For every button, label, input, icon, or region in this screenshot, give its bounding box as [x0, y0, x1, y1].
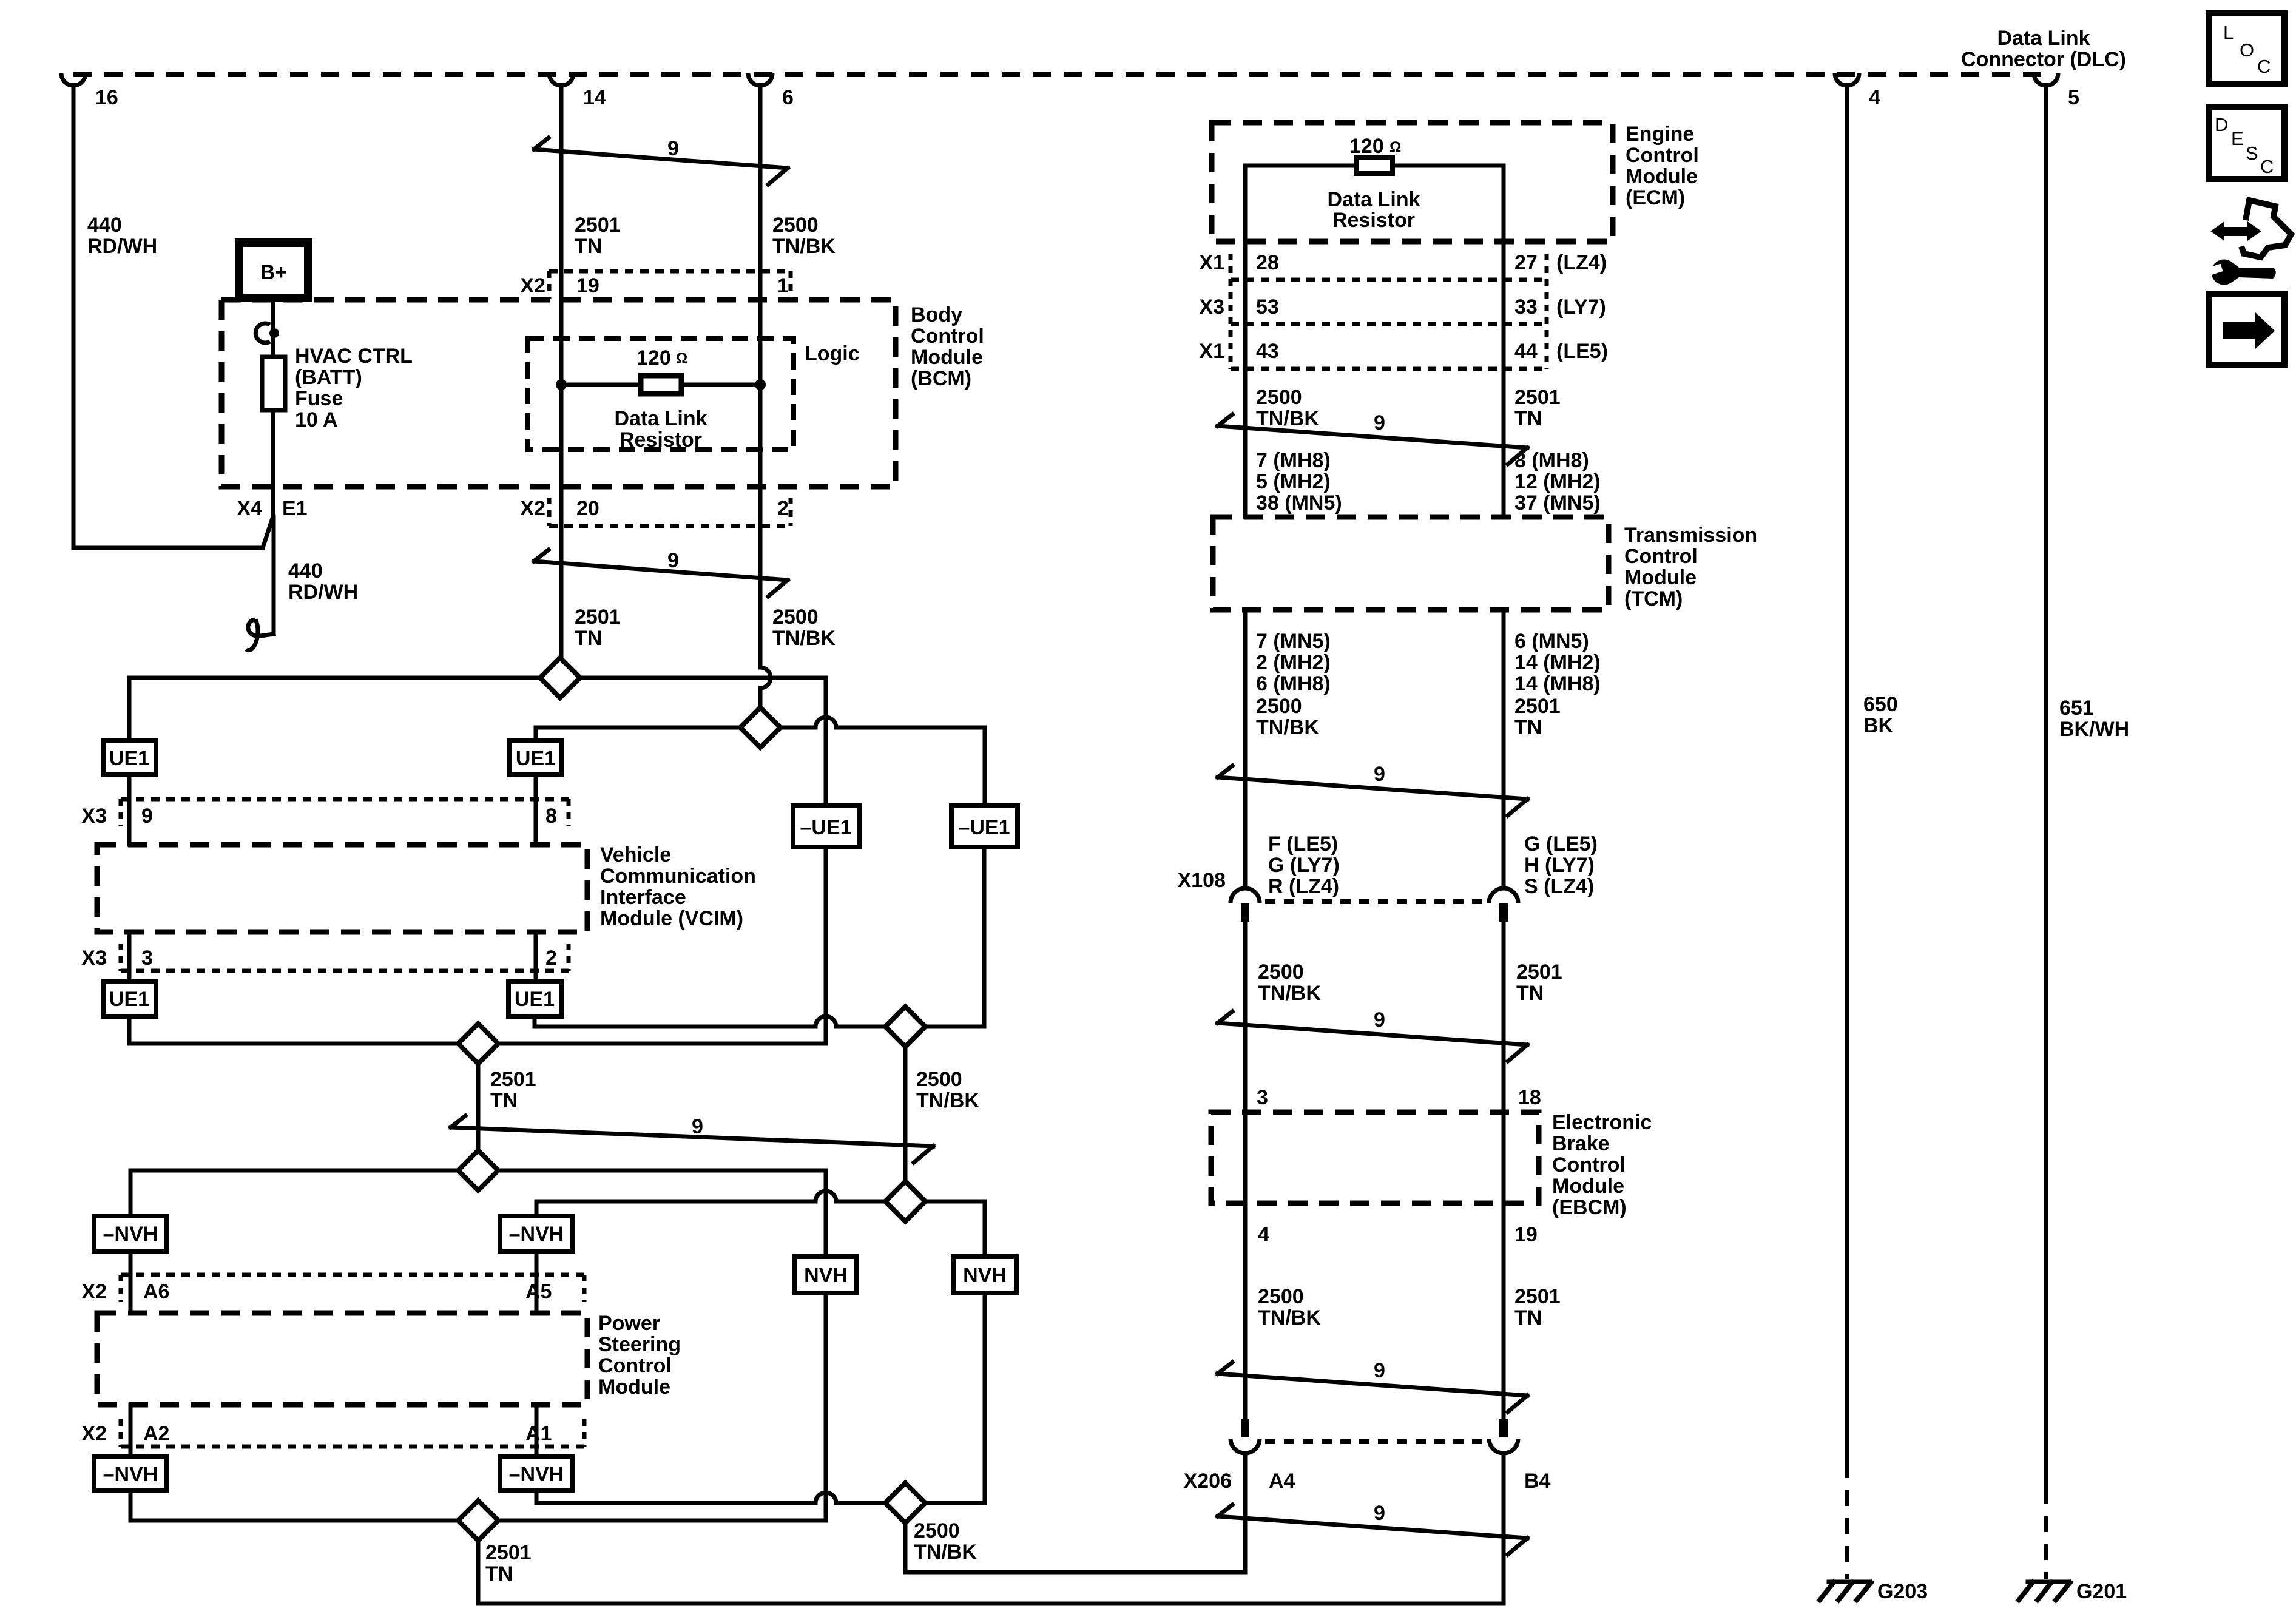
- svg-text:28: 28: [1256, 251, 1279, 274]
- svg-text:TN/BK: TN/BK: [914, 1541, 977, 1564]
- svg-text:9: 9: [1374, 763, 1385, 786]
- svg-text:Ω: Ω: [676, 350, 687, 366]
- svg-text:E: E: [2231, 128, 2244, 149]
- svg-text:Module: Module: [1624, 566, 1697, 589]
- svg-text:–NVH: –NVH: [509, 1223, 564, 1246]
- svg-text:Resistor: Resistor: [620, 428, 702, 451]
- svg-text:B+: B+: [260, 261, 287, 284]
- svg-text:L: L: [2223, 22, 2234, 43]
- svg-text:TN/BK: TN/BK: [1258, 982, 1321, 1005]
- svg-text:(EBCM): (EBCM): [1552, 1196, 1627, 1219]
- svg-text:2500: 2500: [1258, 960, 1304, 984]
- svg-text:120: 120: [1349, 135, 1384, 158]
- svg-text:Module: Module: [911, 346, 983, 369]
- svg-text:X4: X4: [237, 497, 262, 520]
- svg-text:A2: A2: [143, 1422, 169, 1445]
- svg-text:10 A: 10 A: [295, 408, 338, 431]
- svg-text:2500: 2500: [1256, 695, 1302, 718]
- svg-text:Body: Body: [911, 303, 962, 326]
- svg-text:2501: 2501: [575, 606, 621, 629]
- svg-text:7 (MN5): 7 (MN5): [1256, 630, 1331, 653]
- svg-text:3: 3: [141, 947, 153, 970]
- svg-text:Vehicle: Vehicle: [600, 843, 671, 866]
- svg-text:TN: TN: [575, 235, 602, 258]
- svg-text:9: 9: [692, 1115, 703, 1138]
- svg-text:14 (MH2): 14 (MH2): [1514, 651, 1601, 674]
- svg-text:TN/BK: TN/BK: [1256, 407, 1319, 430]
- svg-text:TN/BK: TN/BK: [772, 627, 836, 650]
- svg-text:4: 4: [1869, 86, 1880, 109]
- svg-text:37 (MN5): 37 (MN5): [1514, 491, 1601, 515]
- svg-text:UE1: UE1: [515, 988, 555, 1011]
- svg-text:X1: X1: [1199, 251, 1224, 274]
- svg-text:2501: 2501: [485, 1541, 532, 1564]
- svg-text:2500: 2500: [1256, 386, 1302, 409]
- svg-text:(LY7): (LY7): [1556, 295, 1606, 319]
- svg-text:12 (MH2): 12 (MH2): [1514, 470, 1601, 493]
- svg-text:–NVH: –NVH: [103, 1223, 158, 1246]
- svg-text:(TCM): (TCM): [1624, 587, 1683, 610]
- svg-text:2500: 2500: [916, 1068, 962, 1091]
- svg-text:2500: 2500: [772, 214, 819, 237]
- svg-text:2501: 2501: [1514, 386, 1561, 409]
- svg-text:UE1: UE1: [516, 747, 556, 770]
- svg-text:5 (MH2): 5 (MH2): [1256, 470, 1331, 493]
- svg-text:E1: E1: [282, 497, 308, 520]
- svg-text:2 (MH2): 2 (MH2): [1256, 651, 1331, 674]
- svg-text:F (LE5): F (LE5): [1268, 832, 1338, 856]
- svg-text:TN: TN: [485, 1562, 513, 1585]
- svg-text:9: 9: [1374, 1359, 1385, 1382]
- svg-text:Steering: Steering: [598, 1333, 681, 1356]
- svg-text:Interface: Interface: [600, 886, 686, 909]
- svg-text:6 (MN5): 6 (MN5): [1514, 630, 1589, 653]
- svg-text:X2: X2: [81, 1280, 107, 1303]
- svg-text:2501: 2501: [1516, 960, 1562, 984]
- svg-text:19: 19: [576, 274, 599, 297]
- svg-text:X108: X108: [1178, 869, 1226, 892]
- svg-text:18: 18: [1518, 1086, 1541, 1109]
- svg-text:X206: X206: [1184, 1470, 1232, 1493]
- svg-text:X3: X3: [81, 805, 107, 828]
- svg-text:Module: Module: [1552, 1175, 1624, 1198]
- svg-text:Connector (DLC): Connector (DLC): [1961, 48, 2126, 71]
- svg-text:TN: TN: [490, 1089, 518, 1112]
- svg-text:Communication: Communication: [600, 865, 756, 888]
- svg-text:HVAC CTRL: HVAC CTRL: [295, 345, 413, 368]
- svg-text:2501: 2501: [575, 214, 621, 237]
- svg-text:53: 53: [1256, 295, 1279, 319]
- svg-text:2501: 2501: [1514, 1285, 1561, 1308]
- svg-text:X3: X3: [81, 947, 107, 970]
- svg-text:5: 5: [2068, 86, 2079, 109]
- svg-text:33: 33: [1514, 295, 1538, 319]
- svg-text:38 (MN5): 38 (MN5): [1256, 491, 1342, 515]
- svg-text:–UE1: –UE1: [958, 816, 1010, 839]
- svg-text:BK: BK: [1863, 714, 1894, 737]
- svg-text:2500: 2500: [1258, 1285, 1304, 1308]
- svg-text:120: 120: [636, 346, 671, 370]
- svg-text:4: 4: [1258, 1223, 1269, 1246]
- svg-text:44: 44: [1514, 340, 1538, 363]
- svg-text:C: C: [2260, 156, 2274, 177]
- svg-text:NVH: NVH: [804, 1264, 848, 1287]
- svg-text:UE1: UE1: [109, 988, 149, 1011]
- svg-text:Brake: Brake: [1552, 1132, 1610, 1155]
- svg-text:Ω: Ω: [1389, 139, 1401, 155]
- svg-text:X3: X3: [1199, 295, 1224, 319]
- svg-text:7 (MH8): 7 (MH8): [1256, 449, 1331, 472]
- svg-text:9: 9: [1374, 1008, 1385, 1031]
- svg-text:O: O: [2240, 39, 2254, 61]
- svg-text:651: 651: [2059, 697, 2094, 720]
- svg-text:Data Link: Data Link: [1327, 188, 1420, 211]
- svg-text:2: 2: [545, 947, 557, 970]
- svg-text:RD/WH: RD/WH: [288, 581, 358, 604]
- svg-text:TN/BK: TN/BK: [772, 235, 836, 258]
- svg-text:9: 9: [667, 549, 679, 572]
- svg-text:Control: Control: [1552, 1153, 1626, 1176]
- svg-text:20: 20: [576, 497, 599, 520]
- svg-text:UE1: UE1: [109, 747, 149, 770]
- svg-text:650: 650: [1863, 693, 1898, 716]
- svg-text:Control: Control: [1626, 144, 1699, 167]
- svg-text:H (LY7): H (LY7): [1524, 854, 1595, 877]
- svg-text:X2: X2: [520, 497, 545, 520]
- svg-text:(BATT): (BATT): [295, 366, 362, 389]
- svg-text:16: 16: [95, 86, 118, 109]
- svg-text:A6: A6: [143, 1280, 169, 1303]
- svg-text:(LZ4): (LZ4): [1556, 251, 1607, 274]
- svg-text:9: 9: [1374, 1502, 1385, 1525]
- svg-text:9: 9: [141, 805, 153, 828]
- svg-text:3: 3: [1257, 1086, 1268, 1109]
- svg-text:TN/BK: TN/BK: [1258, 1306, 1321, 1329]
- svg-text:27: 27: [1514, 251, 1538, 274]
- svg-text:Data Link: Data Link: [614, 407, 707, 430]
- svg-text:BK/WH: BK/WH: [2059, 718, 2129, 741]
- svg-text:A5: A5: [525, 1280, 552, 1303]
- svg-text:NVH: NVH: [963, 1264, 1007, 1287]
- svg-text:8: 8: [545, 805, 557, 828]
- svg-text:C: C: [2257, 56, 2271, 77]
- svg-text:X1: X1: [1199, 340, 1224, 363]
- svg-text:Data Link: Data Link: [1997, 27, 2090, 50]
- svg-text:TN/BK: TN/BK: [916, 1089, 979, 1112]
- svg-text:X2: X2: [520, 274, 545, 297]
- svg-text:TN: TN: [1514, 407, 1542, 430]
- svg-text:Electronic: Electronic: [1552, 1111, 1652, 1134]
- svg-text:Resistor: Resistor: [1332, 209, 1415, 232]
- svg-text:G201: G201: [2076, 1580, 2127, 1603]
- svg-text:S (LZ4): S (LZ4): [1524, 875, 1594, 898]
- svg-text:(ECM): (ECM): [1626, 186, 1685, 209]
- svg-text:G (LY7): G (LY7): [1268, 854, 1340, 877]
- svg-text:Power: Power: [598, 1312, 660, 1335]
- svg-text:TN: TN: [1514, 1306, 1542, 1329]
- svg-text:1: 1: [777, 274, 789, 297]
- svg-text:G203: G203: [1877, 1580, 1928, 1603]
- svg-text:2501: 2501: [490, 1068, 536, 1091]
- svg-text:TN: TN: [1516, 982, 1544, 1005]
- svg-text:(LE5): (LE5): [1556, 340, 1608, 363]
- svg-text:43: 43: [1256, 340, 1279, 363]
- svg-text:Module: Module: [1626, 165, 1698, 188]
- svg-text:TN: TN: [575, 627, 602, 650]
- svg-text:RD/WH: RD/WH: [87, 235, 157, 258]
- svg-text:2: 2: [777, 497, 789, 520]
- svg-text:TN/BK: TN/BK: [1256, 716, 1319, 739]
- svg-text:Transmission: Transmission: [1624, 524, 1757, 547]
- svg-text:X2: X2: [81, 1422, 107, 1445]
- svg-text:Module (VCIM): Module (VCIM): [600, 907, 743, 930]
- svg-text:Control: Control: [598, 1354, 672, 1377]
- svg-text:Module: Module: [598, 1376, 670, 1399]
- svg-text:Control: Control: [1624, 545, 1698, 568]
- svg-text:9: 9: [667, 137, 679, 160]
- svg-text:G (LE5): G (LE5): [1524, 832, 1598, 856]
- svg-text:14 (MH8): 14 (MH8): [1514, 672, 1601, 695]
- svg-text:B4: B4: [1524, 1470, 1551, 1493]
- svg-text:A4: A4: [1269, 1470, 1295, 1493]
- svg-text:2500: 2500: [914, 1519, 960, 1542]
- svg-text:Logic: Logic: [805, 342, 860, 365]
- svg-text:6: 6: [782, 86, 794, 109]
- svg-text:440: 440: [288, 559, 323, 582]
- svg-text:TN: TN: [1514, 716, 1542, 739]
- svg-text:14: 14: [583, 86, 606, 109]
- svg-text:–NVH: –NVH: [103, 1463, 158, 1486]
- svg-text:2500: 2500: [772, 606, 819, 629]
- svg-text:–UE1: –UE1: [800, 816, 851, 839]
- svg-text:8 (MH8): 8 (MH8): [1514, 449, 1589, 472]
- svg-text:Engine: Engine: [1626, 123, 1694, 146]
- svg-text:D: D: [2215, 114, 2228, 135]
- svg-text:Control: Control: [911, 325, 984, 348]
- svg-text:(BCM): (BCM): [911, 367, 971, 390]
- svg-text:9: 9: [1374, 411, 1385, 434]
- svg-text:A1: A1: [525, 1422, 552, 1445]
- svg-text:19: 19: [1514, 1223, 1538, 1246]
- svg-text:440: 440: [87, 214, 122, 237]
- svg-text:R (LZ4): R (LZ4): [1268, 875, 1339, 898]
- svg-text:S: S: [2246, 143, 2258, 164]
- svg-text:6 (MH8): 6 (MH8): [1256, 672, 1331, 695]
- svg-text:–NVH: –NVH: [509, 1463, 564, 1486]
- svg-text:Fuse: Fuse: [295, 387, 343, 410]
- svg-text:2501: 2501: [1514, 695, 1561, 718]
